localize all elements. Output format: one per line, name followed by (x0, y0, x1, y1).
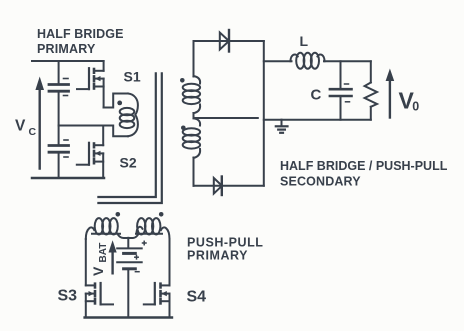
svg-text:C: C (311, 87, 322, 104)
node phase dot secondary lower (181, 126, 186, 131)
node VBAT arrow (109, 240, 117, 273)
label V0 (399, 88, 420, 114)
svg-text:HALF BRIDGE: HALF BRIDGE (37, 27, 124, 41)
winding primary half-bridge (104, 94, 138, 137)
svg-text:L: L (300, 33, 309, 49)
battery VBAT (117, 238, 146, 318)
wire output top (264, 60, 292, 62)
svg-text:PUSH-PULL: PUSH-PULL (187, 236, 263, 250)
label HALF BRIDGE / PUSH-PULL SECONDARY (280, 159, 448, 189)
transistor S4 (144, 239, 170, 318)
wire secondary bottom (194, 185, 264, 187)
svg-text:S4: S4 (187, 289, 207, 306)
label S1 (124, 69, 141, 85)
label L (300, 33, 309, 49)
svg-text:SECONDARY: SECONDARY (280, 175, 361, 189)
node phase dot push-pull left (116, 212, 121, 217)
diode D2 bottom (214, 177, 222, 196)
diode D1 top (220, 30, 229, 52)
svg-text:V: V (15, 118, 26, 135)
inductor L (291, 53, 325, 69)
ground (276, 120, 288, 133)
node phase dot secondary upper (180, 78, 185, 83)
label S2 (120, 155, 137, 171)
svg-text:V: V (90, 266, 106, 276)
wire center tap to ground (195, 117, 258, 119)
svg-text:0: 0 (412, 100, 419, 114)
label C (311, 87, 322, 104)
capacitor C output (330, 61, 352, 119)
wire mid rail to switch node (59, 125, 103, 127)
transistor S3 (86, 239, 113, 318)
wire bottom rail half-bridge (32, 177, 104, 180)
wire L to load (324, 60, 371, 62)
node Vc arrow (35, 77, 44, 169)
svg-text:S2: S2 (120, 155, 137, 171)
node phase dot push-pull right (159, 212, 164, 217)
svg-text:C: C (29, 126, 37, 138)
capacitor C upper (input divider) (49, 61, 69, 144)
wire secondary right rail (263, 41, 265, 186)
svg-text:S3: S3 (58, 288, 78, 305)
capacitor C lower (input divider) (49, 140, 69, 178)
transistor S2 (77, 126, 103, 179)
svg-text:HALF BRIDGE / PUSH-PULL: HALF BRIDGE / PUSH-PULL (280, 159, 448, 173)
label Vc (15, 118, 37, 139)
label S4 (187, 289, 207, 306)
label VBAT (90, 243, 109, 276)
node V0 arrow (386, 69, 395, 118)
svg-text:S1: S1 (124, 69, 141, 85)
svg-text:PRIMARY: PRIMARY (187, 249, 248, 263)
winding push-pull right (136, 218, 170, 239)
node phase dot primary (117, 101, 122, 106)
wire center tap dip (118, 234, 139, 238)
transistor S1 (77, 61, 104, 108)
label S3 (58, 288, 78, 305)
resistor load (365, 61, 377, 119)
winding secondary upper (183, 41, 200, 118)
winding push-pull left (86, 218, 120, 239)
svg-text:BAT: BAT (98, 243, 109, 263)
label PUSH-PULL PRIMARY (187, 236, 263, 263)
wire push-pull bottom rail (85, 316, 172, 318)
wire output return rail (264, 119, 371, 121)
transformer core (98, 73, 161, 203)
label HALF BRIDGE PRIMARY (37, 27, 124, 56)
winding secondary lower (183, 118, 200, 186)
svg-text:PRIMARY: PRIMARY (37, 42, 96, 56)
wire top rail half-bridge (32, 60, 104, 62)
wire secondary top (194, 40, 264, 42)
